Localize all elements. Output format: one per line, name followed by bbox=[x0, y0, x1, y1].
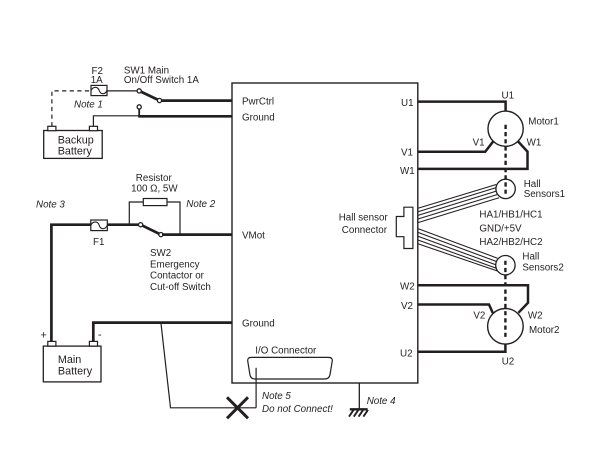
svg-text:Note 3: Note 3 bbox=[36, 200, 65, 211]
svg-text:-: - bbox=[98, 329, 102, 341]
wire ground tap to X bbox=[161, 324, 256, 408]
svg-text:W1: W1 bbox=[527, 137, 542, 148]
wire switch lower contact stub bbox=[138, 108, 140, 117]
switch SW2 blade bbox=[141, 225, 161, 235]
wire chassis ground drop bbox=[358, 383, 360, 409]
wire U2 bbox=[418, 344, 505, 351]
svg-text:W2: W2 bbox=[400, 282, 415, 293]
label SW2 block bbox=[150, 248, 211, 293]
chassis ground symbol bbox=[349, 409, 368, 416]
svg-text:Sensors2: Sensors2 bbox=[522, 262, 563, 273]
main battery bbox=[43, 341, 101, 382]
hall1 wire 1 bbox=[418, 185, 496, 209]
svg-text:Connector: Connector bbox=[342, 225, 388, 236]
svg-text:Motor2: Motor2 bbox=[529, 325, 560, 336]
motor1 shaft dashed bbox=[504, 125, 506, 197]
svg-text:U1: U1 bbox=[401, 98, 414, 109]
svg-text:100 Ω, 5W: 100 Ω, 5W bbox=[131, 183, 178, 194]
wire Ground top thick bbox=[138, 115, 232, 118]
svg-text:Battery: Battery bbox=[58, 366, 93, 378]
svg-text:W2: W2 bbox=[528, 310, 543, 321]
hall1 wire 3 bbox=[418, 191, 496, 215]
wire PwrCtrl thick bbox=[160, 99, 232, 102]
wire main battery minus to Ground thick bbox=[93, 323, 232, 343]
hall2 wire 5 bbox=[418, 244, 498, 271]
hall1 wire 2 bbox=[418, 188, 496, 212]
svg-text:GND/+5V: GND/+5V bbox=[479, 223, 522, 234]
wire resistor right leg bbox=[167, 202, 180, 235]
X mark bbox=[227, 397, 248, 418]
svg-text:V2: V2 bbox=[401, 301, 413, 312]
dashed wire Note 1 bbox=[52, 91, 90, 126]
svg-text:W1: W1 bbox=[400, 166, 415, 177]
switch SW1 contact A bbox=[137, 89, 141, 93]
switch SW2 contact A bbox=[139, 223, 143, 227]
wire U1 bbox=[418, 102, 506, 112]
switch SW1 contact B bbox=[157, 98, 161, 102]
svg-text:+: + bbox=[41, 330, 47, 342]
svg-text:Ground: Ground bbox=[242, 319, 275, 330]
switch SW1 contact C bbox=[137, 105, 141, 109]
svg-text:Emergency: Emergency bbox=[150, 259, 200, 270]
svg-text:On/Off Switch 1A: On/Off Switch 1A bbox=[124, 75, 199, 86]
svg-text:Note 2: Note 2 bbox=[186, 199, 215, 210]
svg-text:Battery: Battery bbox=[58, 146, 93, 158]
svg-text:HA1/HB1/HC1: HA1/HB1/HC1 bbox=[479, 209, 542, 220]
svg-text:Contactor or: Contactor or bbox=[150, 271, 205, 282]
svg-text:Note 5: Note 5 bbox=[262, 391, 291, 402]
fuse F1 bbox=[91, 220, 108, 231]
svg-text:Note 1: Note 1 bbox=[74, 100, 103, 111]
svg-text:Sensors1: Sensors1 bbox=[524, 189, 565, 200]
svg-text:VMot: VMot bbox=[242, 231, 265, 242]
wire W1 bbox=[418, 141, 528, 169]
backup battery bbox=[44, 126, 102, 158]
hall sensor connector symbol bbox=[396, 207, 413, 248]
controller box bbox=[232, 83, 418, 383]
wire V1 bbox=[418, 141, 493, 152]
svg-text:Motor1: Motor1 bbox=[528, 116, 559, 127]
hall1 wire 4 bbox=[418, 195, 497, 219]
fuse F2 bbox=[91, 85, 107, 95]
hall2 wire 3 bbox=[418, 236, 496, 265]
hall2 wire 2 bbox=[418, 232, 496, 261]
wire backup battery to ground junction bbox=[93, 116, 139, 127]
hall1 wire 5 bbox=[418, 198, 499, 223]
svg-text:U2: U2 bbox=[502, 356, 515, 367]
svg-text:1A: 1A bbox=[91, 75, 103, 86]
svg-text:HA2/HB2/HC2: HA2/HB2/HC2 bbox=[479, 237, 542, 248]
svg-text:Do not Connect!: Do not Connect! bbox=[262, 404, 333, 415]
svg-text:U2: U2 bbox=[400, 349, 413, 360]
svg-text:Ground: Ground bbox=[242, 112, 275, 123]
svg-text:I/O Connector: I/O Connector bbox=[255, 345, 317, 356]
svg-text:Main: Main bbox=[58, 354, 81, 366]
hall2 wire 4 bbox=[418, 240, 496, 268]
wire fuse F2 to SW1 bbox=[107, 90, 139, 92]
hall2 wire 1 bbox=[418, 229, 498, 259]
svg-text:V1: V1 bbox=[473, 137, 485, 148]
svg-text:Hall sensor: Hall sensor bbox=[339, 213, 389, 224]
svg-text:SW2: SW2 bbox=[150, 248, 171, 259]
svg-text:F1: F1 bbox=[93, 237, 104, 248]
switch SW1 blade bbox=[139, 91, 159, 101]
svg-text:V2: V2 bbox=[473, 310, 485, 321]
svg-text:Hall: Hall bbox=[522, 251, 539, 262]
motor M2 bbox=[488, 309, 524, 345]
hall sensors1 circle bbox=[496, 179, 515, 198]
motor2 shaft dashed bbox=[504, 261, 506, 339]
svg-text:PwrCtrl: PwrCtrl bbox=[242, 97, 274, 108]
wire VMot thick bbox=[162, 233, 232, 236]
wire W2 bbox=[418, 285, 528, 313]
wire V2 bbox=[418, 305, 493, 314]
svg-text:Cut-off Switch: Cut-off Switch bbox=[150, 282, 211, 293]
hall sensors2 circle bbox=[496, 256, 515, 275]
motor M1 bbox=[488, 111, 523, 146]
resistor R bbox=[143, 199, 167, 206]
svg-text:Note 4: Note 4 bbox=[367, 396, 396, 407]
wire I/O pin do-not-connect bbox=[255, 368, 257, 408]
wire resistor left leg bbox=[129, 202, 143, 225]
svg-text:U1: U1 bbox=[502, 90, 515, 101]
switch SW2 contact B bbox=[159, 233, 163, 237]
svg-text:V1: V1 bbox=[401, 148, 413, 159]
wire main battery plus to F1 thick bbox=[51, 225, 140, 343]
I/O connector outline bbox=[248, 357, 333, 379]
